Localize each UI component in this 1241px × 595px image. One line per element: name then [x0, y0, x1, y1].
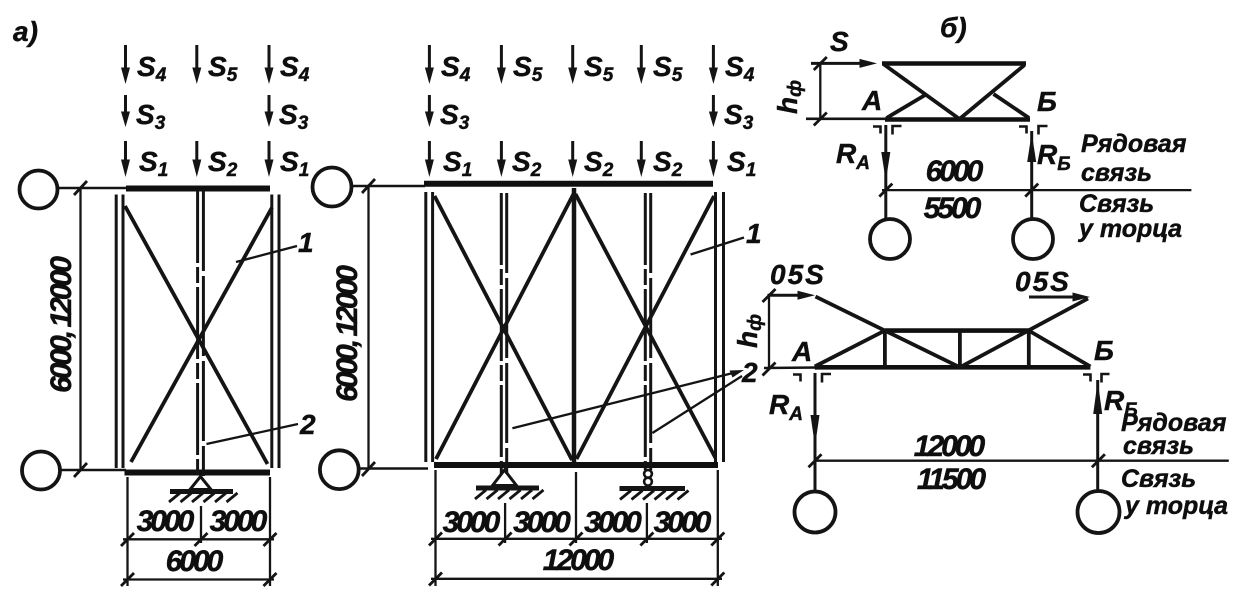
svg-text:S5: S5 — [584, 51, 614, 86]
right column (mid) double line — [716, 192, 724, 462]
support 2 (mid): hatching — [620, 491, 689, 500]
bottom truss: top chord — [885, 328, 1029, 333]
top truss: sub-diagonal from B — [994, 94, 1030, 118]
load arrow S4 mcol5 — [709, 45, 755, 86]
wire hf to truss bottom chord 2 — [764, 366, 818, 369]
dimension line 6000 (a) — [123, 578, 274, 580]
ticks dim2 (a) — [121, 573, 277, 586]
bearing marks at B (bottom truss) — [1083, 374, 1110, 383]
dimension line 3000+3000 (a) — [123, 538, 274, 540]
svg-text:S5: S5 — [208, 51, 238, 86]
vertical dimension line 6000,12000 — [79, 188, 81, 470]
svg-text:5500: 5500 — [924, 192, 982, 225]
svg-text:RА: RА — [769, 389, 803, 425]
svg-text:S3: S3 — [279, 99, 309, 134]
svg-text:3000: 3000 — [584, 506, 642, 539]
load arrow S2 mcol3 — [568, 141, 613, 181]
svg-text:05S: 05S — [1015, 266, 1071, 297]
top truss: diagonal TL to bottom-mid — [884, 65, 960, 120]
dim hf top: ticks — [814, 57, 827, 126]
bottom truss: sub-diagonal from B — [1029, 331, 1091, 367]
reaction RA (top): line and arrowhead down — [881, 125, 890, 218]
svg-text:2: 2 — [299, 409, 316, 440]
extension line right (a) — [269, 477, 271, 586]
bearing marks at B (top truss) — [1019, 126, 1048, 135]
brace diagonal (mid) panel1 TR-BL — [436, 194, 574, 459]
svg-text:S4: S4 — [441, 51, 471, 86]
grid circle bottom-left — [22, 452, 60, 490]
wire circle to frame mid — [352, 185, 426, 188]
load arrow S5 mcol4 — [637, 45, 683, 86]
dimension line 12000 (mid) — [431, 578, 722, 580]
svg-text:Рядовая: Рядовая — [1081, 130, 1187, 158]
svg-text:3000: 3000 — [654, 506, 712, 539]
right column (a) double line — [272, 195, 279, 469]
bottom truss: bottom chord — [815, 365, 1091, 370]
svg-text:Б: Б — [1094, 335, 1114, 366]
extension line 1 (mid) — [434, 470, 436, 586]
svg-text:S3: S3 — [724, 99, 754, 134]
svg-text:3000: 3000 — [443, 506, 501, 539]
svg-text:hф: hф — [772, 80, 806, 114]
load arrow S4 mcol1 — [425, 45, 471, 86]
brace diagonal (mid) panel1 TL-BR — [435, 196, 573, 460]
dim hf top: vertical line — [819, 63, 821, 118]
svg-text:05S: 05S — [770, 259, 826, 290]
bottom truss: sub-diagonal from A — [815, 331, 885, 367]
extension line 5 (mid) — [717, 470, 719, 586]
svg-text:S1: S1 — [727, 146, 756, 181]
svg-text:12000: 12000 — [914, 430, 986, 463]
svg-text:у торца: у торца — [1123, 492, 1228, 520]
svg-text:у торца: у торца — [1077, 215, 1182, 243]
svg-text:S1: S1 — [280, 146, 309, 181]
bottom truss: long diagonal right — [960, 299, 1088, 368]
dim hf bottom: vertical line — [768, 295, 770, 369]
grid circle A (bottom truss) — [795, 492, 836, 533]
svg-text:б): б) — [940, 12, 967, 43]
svg-text:S: S — [830, 26, 849, 57]
svg-text:Б: Б — [1037, 86, 1057, 117]
support (a): ground bar — [170, 489, 233, 494]
grid circle bottom mid — [320, 450, 359, 489]
bearing marks at A (bottom truss) — [793, 374, 831, 383]
svg-text:hф: hф — [732, 314, 766, 348]
svg-text:6000, 12000: 6000, 12000 — [331, 265, 364, 402]
svg-text:RА: RА — [836, 138, 870, 174]
support 1 (mid): ground bar — [476, 486, 539, 491]
bearing marks at A (top truss) — [873, 126, 902, 135]
svg-text:S2: S2 — [208, 146, 238, 181]
bottom truss: vertical 1 — [883, 331, 887, 367]
brace diagonal (a) TL-BR — [125, 206, 268, 464]
support (a): hatching — [169, 493, 238, 502]
top truss: sub-diagonal from A — [887, 95, 927, 119]
tick bottom — [74, 463, 87, 477]
left column (mid) double line — [426, 192, 433, 462]
tick bottom mid — [362, 462, 375, 476]
svg-text:S3: S3 — [440, 99, 470, 134]
load arrow S1 mcol5 — [709, 141, 756, 181]
bottom truss: vertical 2 — [958, 331, 962, 367]
top chord (mid) — [424, 181, 713, 187]
svg-text:S5: S5 — [653, 51, 683, 86]
reaction RB (top): line and arrowhead up — [1027, 131, 1036, 218]
svg-text:S4: S4 — [725, 51, 755, 86]
load arrow S4 col1 — [121, 45, 167, 86]
support (a): triangle — [190, 477, 211, 490]
svg-text:S1: S1 — [139, 146, 168, 181]
svg-text:S3: S3 — [136, 99, 166, 134]
load arrow S3 col1 — [121, 95, 166, 134]
load arrow S2 col2 — [192, 141, 237, 181]
svg-text:Связь: Связь — [1121, 465, 1196, 493]
load arrow S1 col3 — [265, 141, 310, 181]
wire circle to frame bottom mid — [359, 467, 428, 470]
strut axis 2 (mid) dash-dot double — [645, 193, 650, 470]
load arrow S5 mcol3 — [568, 45, 613, 86]
dim hf bottom: ticks — [763, 289, 776, 376]
ticks 6000/5500 — [879, 184, 1038, 197]
svg-text:S4: S4 — [137, 51, 167, 86]
grid circle B (bottom truss) — [1078, 491, 1120, 533]
svg-text:S2: S2 — [584, 146, 614, 181]
extension line 4 (mid) — [646, 503, 648, 543]
svg-text:3000: 3000 — [513, 506, 571, 539]
load arrow S5 col2 — [192, 45, 237, 86]
load arrow S2 mcol2 — [497, 141, 542, 181]
svg-text:12000: 12000 — [543, 544, 615, 577]
top truss: bottom chord — [885, 117, 1030, 122]
support 1 (mid): hatching — [475, 490, 544, 499]
load arrow S3 mcol5 — [709, 95, 754, 134]
load arrow S5 mcol2 — [497, 45, 543, 86]
brace diagonal (a) TR-BL — [131, 208, 272, 463]
tick top mid — [362, 179, 375, 193]
extension line left (a) — [126, 477, 128, 586]
svg-text:связь: связь — [1081, 159, 1152, 187]
strut axis 1 (mid) dash-dot double — [501, 193, 506, 474]
svg-text:S5: S5 — [513, 51, 543, 86]
svg-text:3000: 3000 — [137, 505, 195, 538]
left column (a) double line — [116, 195, 123, 469]
tick top — [74, 181, 87, 195]
force arrow S — [811, 59, 877, 68]
bottom truss: vertical 3 — [1027, 331, 1031, 367]
svg-text:А: А — [791, 336, 812, 367]
svg-text:6000: 6000 — [926, 155, 984, 188]
svg-text:а): а) — [13, 16, 38, 47]
bottom chord (a) — [125, 470, 271, 476]
support 2 (mid): ground bar — [620, 486, 686, 491]
grid circle top mid — [313, 168, 352, 207]
reaction RA (bottom): line and arrowhead down — [811, 373, 820, 491]
wire circle to frame bottom — [60, 469, 126, 472]
top truss: diagonal TR to bottom-mid — [960, 65, 1025, 119]
reaction RB (bottom): line and arrowhead up — [1093, 380, 1102, 490]
dimension line 3000x4 (mid) — [431, 538, 722, 540]
svg-text:11500: 11500 — [917, 463, 987, 496]
svg-text:2: 2 — [741, 357, 758, 388]
svg-text:S1: S1 — [443, 146, 472, 181]
load arrow S2 mcol4 — [637, 141, 683, 181]
dimension line 6000/5500 — [882, 189, 1191, 191]
middle vertical member (mid) — [572, 188, 577, 463]
svg-text:1: 1 — [298, 227, 314, 258]
svg-text:S4: S4 — [280, 51, 310, 86]
wire circle to frame — [58, 187, 127, 190]
svg-text:S2: S2 — [653, 146, 683, 181]
svg-text:6000: 6000 — [166, 545, 224, 578]
extension line 3 (mid) — [575, 472, 577, 543]
svg-text:1: 1 — [746, 218, 762, 249]
ticks dim1 (a) — [121, 533, 277, 546]
svg-text:3000: 3000 — [210, 505, 268, 538]
ticks dim1 (mid) — [429, 533, 724, 546]
ticks dim2 (mid) — [429, 573, 724, 586]
leader line label 2 (a) — [207, 424, 299, 444]
dimension line 12000/11500 — [816, 460, 1229, 462]
force arrow 0.5S right — [1029, 293, 1090, 302]
load arrow S3 mcol1 — [425, 95, 470, 134]
leader arrowhead label 2 (mid) — [730, 370, 745, 378]
force arrow 0.5S left — [768, 291, 816, 300]
svg-text:6000, 12000: 6000, 12000 — [45, 256, 78, 393]
support 2 (mid): roller circles — [644, 470, 652, 486]
load arrow S3 col3 — [265, 95, 309, 134]
bottom truss: long diagonal left — [816, 297, 960, 368]
svg-text:RБ: RБ — [1037, 139, 1071, 175]
leader line label 1 (a) — [236, 246, 297, 262]
ticks 12000/11500 — [809, 454, 1105, 467]
svg-text:S2: S2 — [512, 146, 542, 181]
brace diagonal (mid) panel2 TL-BR — [576, 194, 716, 458]
load arrow S1 col1 — [121, 141, 168, 181]
support 1 (mid): triangle — [493, 470, 517, 486]
extension line mid (a) — [200, 506, 202, 543]
svg-text:связь: связь — [1123, 432, 1194, 460]
brace diagonal (mid) panel2 TR-BL — [577, 196, 715, 459]
top truss: top chord — [882, 61, 1026, 66]
load arrow S1 mcol1 — [425, 141, 472, 181]
leader line a label 2 (mid) — [512, 373, 735, 429]
wire hf to truss bottom chord — [806, 118, 888, 121]
grid circle B (top truss) — [1013, 219, 1053, 259]
load arrow S4 col3 — [265, 45, 310, 86]
leader line label 1 (mid) — [691, 238, 744, 255]
top chord (a) — [126, 186, 270, 192]
vertical dimension line 6000,12000 mid — [367, 186, 369, 469]
middle strut axis (a) dash-dot double — [198, 191, 204, 476]
svg-text:А: А — [861, 85, 882, 116]
leader line b label 2 (mid) — [652, 376, 742, 433]
svg-text:Связь: Связь — [1079, 190, 1154, 218]
bottom chord (mid) — [434, 462, 718, 468]
extension line 2 (mid) — [504, 503, 506, 543]
grid circle top-left — [20, 171, 58, 209]
grid circle A (top truss) — [870, 219, 910, 259]
